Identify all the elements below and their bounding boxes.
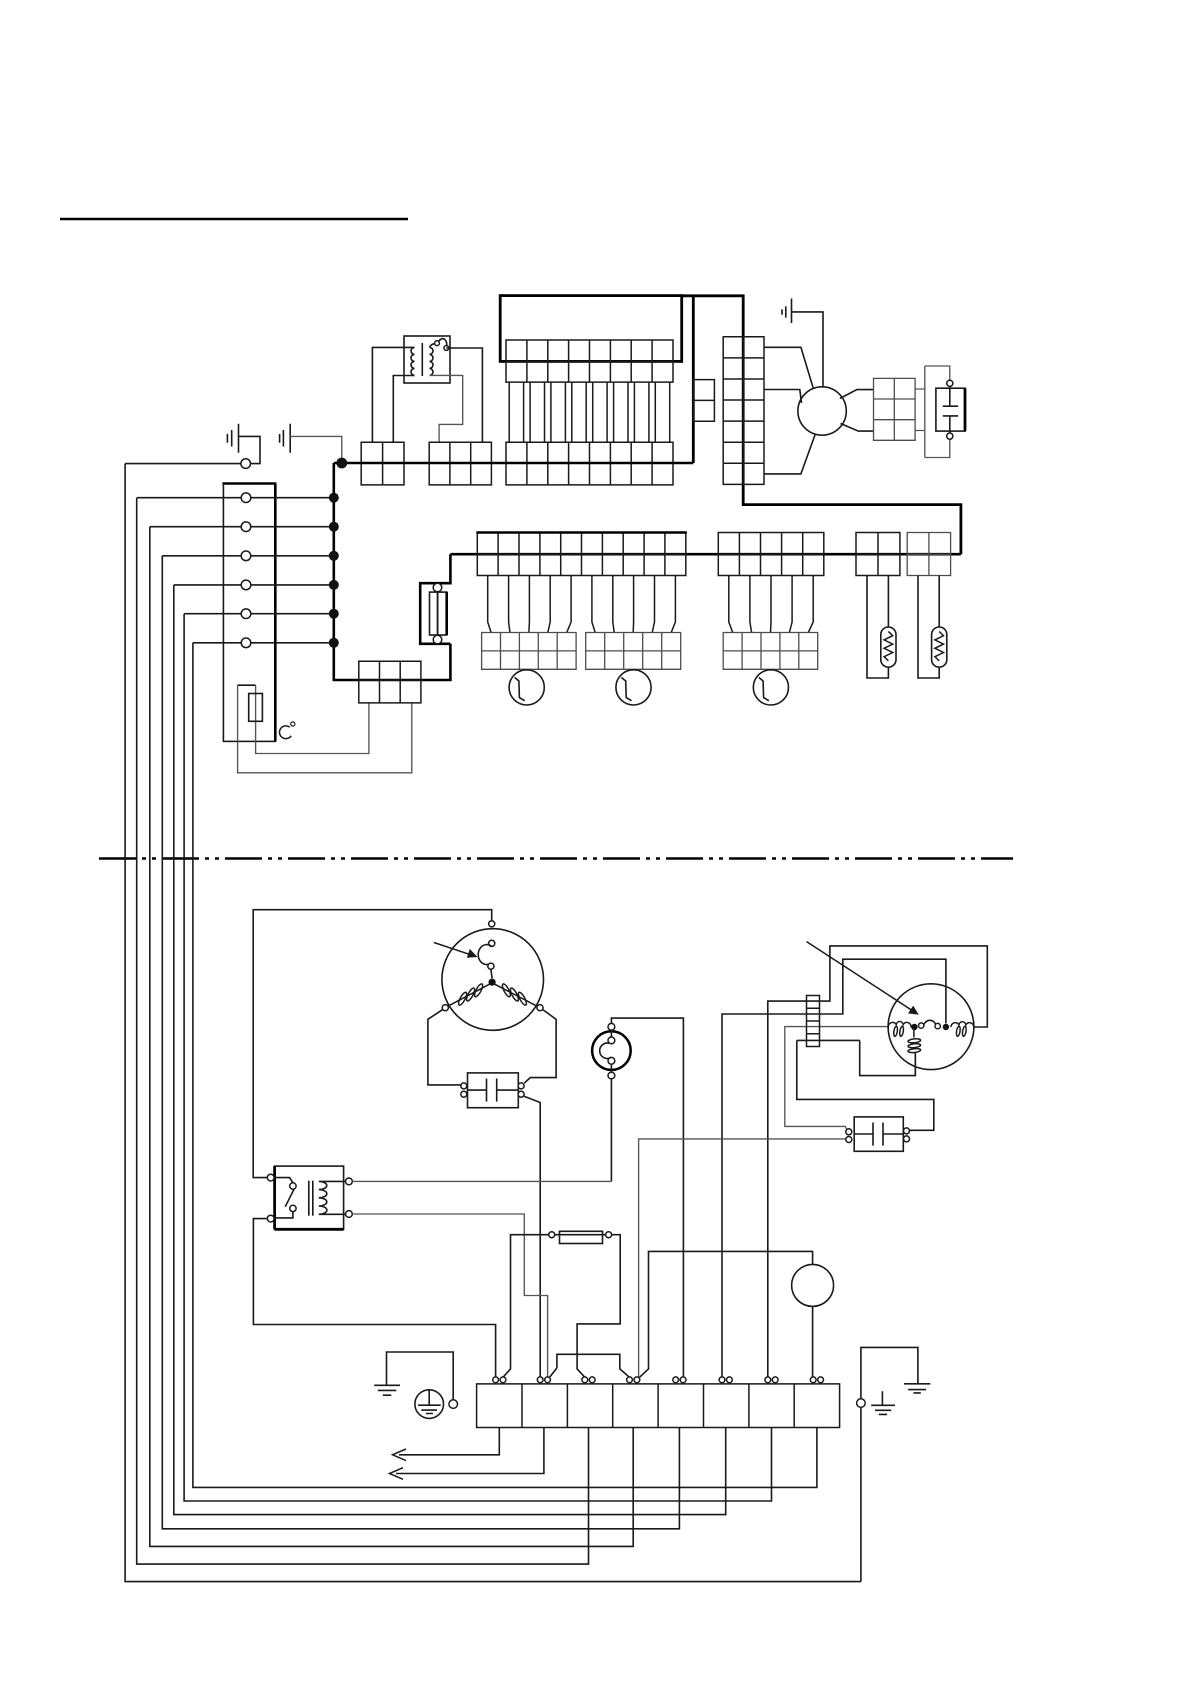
bus: indoor bus vertical + bottom run xyxy=(334,463,451,680)
wire: CM right to CH xyxy=(524,1010,556,1084)
connector CN-M2 5x2 xyxy=(586,633,681,670)
ground (terminal strip top) xyxy=(227,424,238,453)
terminal block TB2 (outdoor) xyxy=(477,1384,840,1428)
terminal circle 1 xyxy=(137,497,334,499)
wire: earth lead left xyxy=(125,463,241,465)
wire: terminal 7a to fan loop xyxy=(768,946,988,1377)
heater H1 xyxy=(867,576,888,679)
terminals cell4 xyxy=(627,1377,633,1383)
heater H2 xyxy=(918,576,939,679)
main winding left xyxy=(888,1022,914,1028)
motor FM (indoor fan) xyxy=(798,387,846,435)
wire: strip row1 to fan xyxy=(764,347,814,389)
connector CN-T 3x2 xyxy=(429,442,491,485)
terminal circle 0 (earth) xyxy=(241,459,251,469)
fuse FUSE (indoor) xyxy=(430,583,447,644)
wire: 20S bottom to terminal 8a xyxy=(812,1306,814,1376)
title underline xyxy=(60,218,408,221)
connector CN-L 10x2 xyxy=(477,533,686,576)
winding left xyxy=(446,984,490,1007)
connector CN-R 2x7 xyxy=(723,337,764,485)
winding right xyxy=(494,984,539,1007)
arrow (fan pointer) xyxy=(807,942,912,1011)
wire: earth run (left outermost) xyxy=(125,464,861,1582)
wire: fan main winding left (via CN cell3) xyxy=(785,1027,888,1130)
wire: transformer primary top xyxy=(372,347,414,442)
terminals cell2 xyxy=(537,1377,543,1383)
wire: compressor common feed xyxy=(253,910,492,1178)
separator indoor/outdoor (dash-dot) xyxy=(99,857,1013,860)
wire: thermostat top to terminal 5b xyxy=(611,1018,683,1376)
wires CN-L to CN-M1/M2 xyxy=(488,576,676,633)
main winding right xyxy=(951,1022,974,1027)
wire: PCB top loop to heater bus (thick) xyxy=(682,296,961,554)
wire: earth terminal left xyxy=(387,1352,454,1400)
wire: terminal 6a to fan switch xyxy=(722,959,946,1376)
wire: strip row7 to fan xyxy=(764,434,816,474)
wire: CM left to CH xyxy=(428,1010,461,1085)
wire: CF to terminal 4b xyxy=(639,1139,846,1377)
connector CN-bottom 8x2 xyxy=(506,442,673,485)
wire: fuse frame xyxy=(420,554,450,644)
terminal circle 4 xyxy=(174,584,334,586)
wire: earth terminal right xyxy=(861,1347,918,1581)
thermostat 23D (outdoor) xyxy=(592,1023,631,1079)
connector CN-top 8x2 xyxy=(506,340,673,382)
wire: inter-unit line 3 xyxy=(162,556,679,1529)
wire: 20S top loop xyxy=(640,1251,813,1377)
arrow (internal protector) xyxy=(434,943,471,955)
connector CN-J 1x2 xyxy=(693,380,714,422)
ground (right upper) xyxy=(904,1384,930,1393)
bus: indoor live bus xyxy=(334,462,694,465)
wire: PCB top feed (thick) xyxy=(692,296,695,463)
wire: fuse left to terminal 1b xyxy=(503,1235,549,1378)
terminal circle 3 xyxy=(162,555,333,557)
label degC xyxy=(279,726,291,739)
ground (earth, left of TB2) xyxy=(374,1385,400,1395)
transformer T xyxy=(404,336,450,383)
wire: transformer secondary top xyxy=(446,348,482,442)
connector CN-F 2x3 xyxy=(874,378,916,440)
connector CN-S 3x2 xyxy=(359,661,421,703)
wire: inter-unit line 5 xyxy=(184,614,771,1501)
wire: fan to connector F lower xyxy=(841,424,874,432)
motor CM (compressor) xyxy=(442,929,544,1031)
wire: relay NO to terminal 1a xyxy=(253,1219,495,1377)
capacitor C (indoor fan) xyxy=(915,366,965,458)
capacitor CH (compressor) xyxy=(461,1073,524,1108)
wire: CN cell4 to CF and aux winding xyxy=(797,1040,934,1130)
wire: thermostat bottom to relay xyxy=(610,1079,612,1182)
aux winding xyxy=(913,1030,915,1038)
motor M2 (louver) xyxy=(616,670,651,705)
motor M1 (louver) xyxy=(509,670,544,705)
terminals cell1 xyxy=(493,1377,499,1383)
PCB control board xyxy=(500,296,682,362)
wire: relay coil bottom to terminal 2b xyxy=(352,1214,547,1377)
wire: inter-unit line 2 xyxy=(150,527,633,1547)
ground (bus) xyxy=(280,424,291,453)
terminals cell5 xyxy=(673,1377,679,1383)
wires CN-L2 to CN-M3 xyxy=(729,576,813,633)
wire: inter-unit line 1 xyxy=(137,498,589,1564)
wire: relay coil top xyxy=(352,1180,611,1182)
wire: fan to connector F upper xyxy=(840,390,874,399)
connector CN-FAN 1x4 xyxy=(807,996,820,1047)
wire: inter-unit line 6 xyxy=(193,643,817,1488)
ribbon bars xyxy=(509,382,670,442)
connector CN-K 2x2 xyxy=(361,442,404,485)
wire: inter-unit line 4 xyxy=(174,585,726,1515)
terminal circle 6 xyxy=(193,642,334,644)
connector CN-H1 2x2 xyxy=(856,533,900,576)
wire: CH to terminal 2a xyxy=(524,1096,540,1376)
motor FM2 (outdoor fan) xyxy=(888,984,974,1070)
coil 20S (valve) xyxy=(792,1264,834,1306)
thermistor TH1 + leads xyxy=(238,685,412,773)
wire: strip row3 to fan xyxy=(764,390,802,404)
motor M3 (louver) xyxy=(753,670,788,705)
wire: fuse right to terminal 3a xyxy=(577,1235,620,1378)
relay 52C xyxy=(267,1166,352,1229)
terminals cell8 xyxy=(810,1377,816,1383)
protective earth symbol xyxy=(415,1390,444,1419)
wire: supply L with arrow xyxy=(399,1428,499,1455)
bus: heater bus (thick) xyxy=(450,553,961,556)
capacitor CF (outdoor fan) xyxy=(846,1117,910,1151)
terminal circle 2 xyxy=(150,526,334,528)
wire: supply N with arrow xyxy=(396,1428,544,1474)
terminal circle 5 xyxy=(184,613,334,615)
connector CN-H2 2x2 xyxy=(907,533,950,576)
connector CN-M3 5x2 xyxy=(723,633,818,670)
wire: link terminal 2b to 4a xyxy=(550,1354,630,1377)
wire: ground to bus junction xyxy=(290,436,342,462)
wire: transformer primary bottom xyxy=(393,376,414,443)
ground (right lower) xyxy=(871,1391,895,1414)
fuse F (outdoor) xyxy=(549,1231,612,1243)
connector CN-M1 5x2 xyxy=(482,633,576,670)
wire: ground to fan motor xyxy=(792,312,824,387)
ground (indoor fan) xyxy=(782,299,792,324)
connector CN-L2 5x2 xyxy=(718,533,824,576)
terminals cell6 xyxy=(719,1377,725,1383)
wire: transformer secondary bottom xyxy=(430,375,463,442)
terminal block TB1 (indoor) xyxy=(223,484,275,742)
terminals cell3 xyxy=(582,1377,588,1383)
terminals cell7 xyxy=(765,1377,771,1383)
